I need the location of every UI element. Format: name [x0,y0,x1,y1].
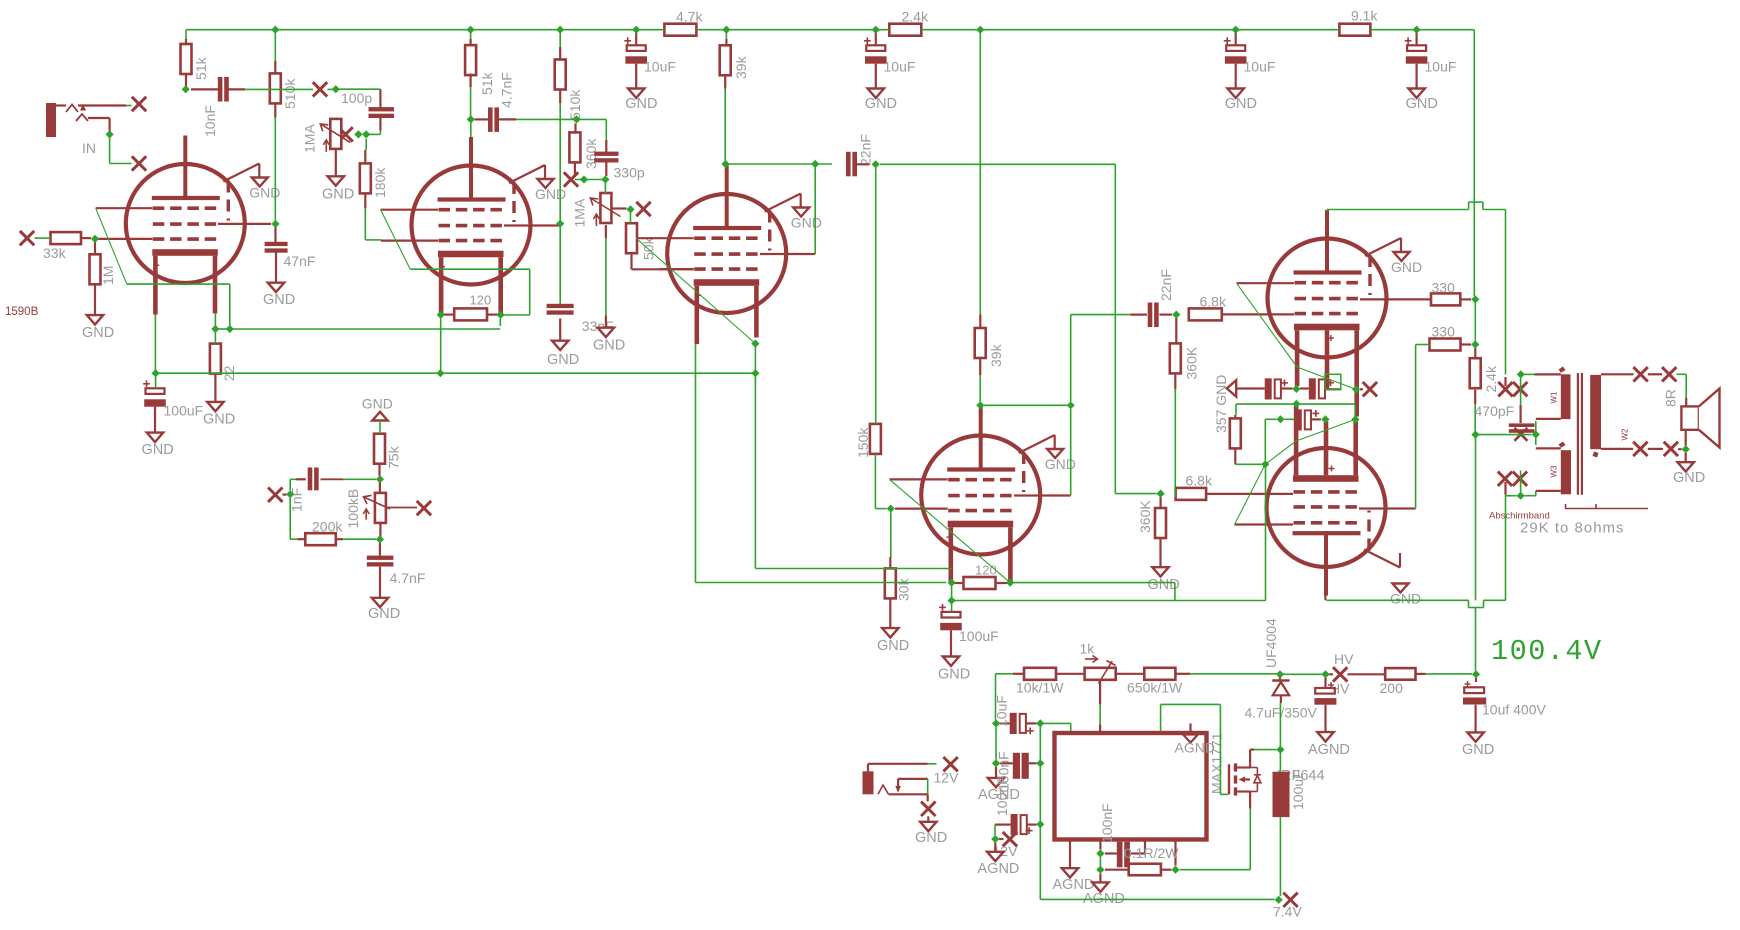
svg-text:100uF: 100uF [959,628,999,644]
svg-text:30k: 30k [896,577,912,601]
svg-text:GND: GND [547,352,579,368]
svg-text:IN: IN [82,140,96,156]
svg-text:1M: 1M [100,266,116,285]
svg-text:100nF: 100nF [994,776,1010,816]
svg-text:51k: 51k [479,71,495,95]
svg-text:10uf 400V: 10uf 400V [1482,702,1546,718]
svg-text:200k: 200k [312,519,343,535]
svg-text:100kB: 100kB [345,489,361,529]
svg-text:1MA: 1MA [302,124,318,153]
svg-text:GND: GND [1391,259,1422,275]
svg-text:GND: GND [593,338,625,354]
svg-text:4.7nF: 4.7nF [390,570,426,586]
svg-text:AGND: AGND [1308,742,1350,758]
svg-text:470pF: 470pF [1475,403,1515,419]
svg-text:8R: 8R [1663,389,1679,407]
svg-text:1590B: 1590B [5,306,39,318]
svg-text:33k: 33k [43,245,67,261]
svg-text:100p: 100p [341,90,372,106]
svg-text:HV: HV [1334,651,1354,667]
svg-text:W2: W2 [1621,428,1630,441]
svg-text:AGND: AGND [978,861,1020,877]
svg-text:GND: GND [1225,96,1257,112]
svg-text:6.8k: 6.8k [1200,294,1227,310]
svg-text:GND: GND [203,412,235,428]
svg-text:330p: 330p [614,165,645,181]
svg-text:GND: GND [368,606,400,622]
svg-text:10uF: 10uF [1244,59,1276,75]
svg-text:0.1R/2W: 0.1R/2W [1124,845,1179,861]
svg-text:GND: GND [362,396,393,412]
svg-text:GND: GND [263,292,295,308]
svg-text:29K to 8ohms: 29K to 8ohms [1520,520,1625,537]
svg-text:GND: GND [535,186,566,202]
svg-text:AGND: AGND [1175,740,1215,756]
svg-text:330: 330 [1432,280,1456,296]
svg-text:W1: W1 [1550,391,1559,404]
svg-text:50k: 50k [641,236,657,260]
svg-text:2.4k: 2.4k [902,8,929,24]
svg-text:360K: 360K [1137,500,1153,533]
svg-text:GND: GND [791,215,822,231]
svg-text:GND: GND [915,830,947,846]
svg-text:100nF: 100nF [1099,803,1115,843]
svg-text:360K: 360K [1184,346,1200,379]
svg-text:GND: GND [865,96,897,112]
svg-text:4.7nF: 4.7nF [499,72,515,108]
svg-text:GND: GND [82,325,114,341]
svg-text:7.4V: 7.4V [1273,904,1302,920]
svg-text:UF4004: UF4004 [1263,618,1279,668]
svg-text:100uF: 100uF [1290,770,1306,810]
svg-text:39k: 39k [988,343,1004,367]
svg-text:650k/1W: 650k/1W [1127,680,1183,696]
svg-text:GND: GND [1673,470,1705,486]
svg-text:100.4V: 100.4V [1491,635,1603,668]
svg-text:6.8k: 6.8k [1186,473,1213,489]
svg-text:GND: GND [625,96,657,112]
svg-text:9.1k: 9.1k [1351,8,1378,24]
svg-text:1k: 1k [1080,641,1096,657]
svg-text:GND: GND [322,187,354,203]
svg-text:4.7k: 4.7k [676,8,703,24]
svg-text:357 GND: 357 GND [1213,375,1229,433]
svg-text:330: 330 [1432,324,1456,340]
svg-text:510k: 510k [567,89,583,120]
svg-text:51k: 51k [193,56,209,80]
svg-text:10uF: 10uF [644,59,676,75]
svg-text:150k: 150k [855,427,871,458]
svg-text:200: 200 [1380,680,1404,696]
svg-text:GND: GND [938,667,970,683]
svg-text:GND: GND [1406,96,1438,112]
svg-text:22nF: 22nF [1158,269,1174,301]
svg-text:75k: 75k [386,445,402,469]
svg-text:510k: 510k [282,78,298,109]
svg-text:10uF: 10uF [1425,59,1457,75]
svg-text:10uF: 10uF [884,59,916,75]
svg-text:GND: GND [1390,591,1421,607]
svg-text:22nF: 22nF [858,134,874,166]
svg-text:12V: 12V [934,770,960,786]
svg-text:GND: GND [142,442,174,458]
svg-text:W3: W3 [1550,465,1559,478]
svg-text:GND: GND [877,638,909,654]
svg-text:10nF: 10nF [202,105,218,137]
svg-text:GND: GND [1462,742,1494,758]
svg-text:2.4k: 2.4k [1483,365,1499,392]
svg-text:39k: 39k [733,55,749,79]
svg-text:180k: 180k [372,167,388,198]
svg-text:100uF: 100uF [164,403,204,419]
svg-text:120: 120 [975,563,997,578]
svg-text:1MA: 1MA [572,198,588,227]
svg-text:47nF: 47nF [284,253,316,269]
svg-text:10k/1W: 10k/1W [1016,680,1064,696]
svg-text:120: 120 [470,293,492,308]
